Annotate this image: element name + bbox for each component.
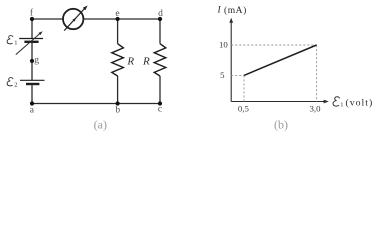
dashed line I=10 (231, 44, 316, 46)
svg-text:(a): (a) (94, 118, 107, 132)
label I (mA) (217, 5, 247, 16)
svg-text:(b): (b) (274, 118, 288, 132)
wire node g to battery E2 (31, 61, 33, 80)
svg-text:(mA): (mA) (224, 5, 247, 16)
svg-text:1: 1 (14, 40, 17, 47)
svg-text:1: 1 (340, 101, 343, 108)
wire left branch f to battery E1 (31, 19, 33, 39)
dashed line I=5 (231, 74, 244, 76)
resistor R2 (154, 44, 166, 76)
svg-text:d: d (158, 9, 163, 19)
wire d down to resistor R2 (159, 19, 161, 44)
variable arrow through E1 (16, 31, 43, 54)
dashed line E=0.5 (243, 75, 245, 101)
ammeter G (63, 6, 88, 31)
x axis E1 (231, 100, 329, 104)
wire resistor R1 to node b (117, 76, 119, 104)
wire top rail f to ammeter (32, 18, 63, 20)
node b (116, 101, 120, 105)
data line I vs E1 (244, 45, 317, 75)
node e (116, 17, 120, 21)
battery E1 (variable) (19, 39, 43, 42)
wire E2 to node a (31, 84, 33, 104)
node d (158, 17, 162, 21)
label E1 source (7, 36, 17, 47)
svg-text:10: 10 (219, 39, 228, 49)
svg-text:5: 5 (220, 70, 225, 80)
node f (30, 17, 34, 21)
wire E1 to node g (31, 42, 33, 61)
resistor R1 (112, 44, 124, 76)
svg-text:3,0: 3,0 (310, 103, 322, 113)
svg-text:2: 2 (14, 82, 17, 89)
wire top rail ammeter to e to d (83, 18, 160, 20)
dashed line E=3.0 (316, 45, 318, 102)
y axis I (229, 18, 233, 102)
svg-text:0,5: 0,5 (238, 103, 250, 113)
wire resistor R2 to node c (159, 76, 161, 104)
node c (158, 101, 162, 105)
label E2 source (7, 78, 17, 89)
svg-text:b: b (115, 106, 120, 116)
svg-text:c: c (158, 105, 162, 115)
node g (30, 59, 34, 63)
svg-text:(volt): (volt) (346, 97, 374, 108)
svg-text:R: R (142, 56, 150, 68)
svg-text:R: R (126, 56, 134, 68)
wire bottom rail a to b to c (32, 103, 160, 105)
wire e down to resistor R1 (117, 19, 119, 44)
axis label E1 (volt) (333, 97, 373, 109)
svg-text:e: e (115, 9, 119, 19)
svg-text:g: g (34, 55, 39, 65)
node a (30, 101, 34, 105)
battery E2 (20, 80, 45, 84)
